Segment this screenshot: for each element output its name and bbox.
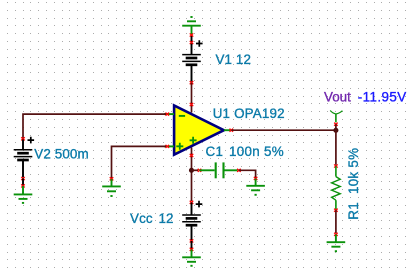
wire R1 to ground <box>335 210 337 233</box>
svg-text:U1 OPA192: U1 OPA192 <box>213 106 285 121</box>
ground GND1 (inverted, above V1) <box>182 17 201 35</box>
pin mark Vcc ground <box>190 248 194 251</box>
pin mark Vcc minus <box>190 239 194 242</box>
svg-text:C1 100n 5%: C1 100n 5% <box>206 144 285 159</box>
op-amp U1 <box>174 106 224 155</box>
pin mark in+ ground <box>110 177 114 180</box>
wire opamp out to junction <box>231 129 336 131</box>
pin mark opamp in+ <box>166 145 170 148</box>
wire opamp in+ to ground <box>112 146 167 178</box>
ground below Vcc <box>182 250 201 266</box>
capacitor C1 <box>200 162 238 178</box>
opamp input stub 2 <box>164 145 174 147</box>
plus sign V1 <box>196 40 203 47</box>
node Vout junction <box>333 128 338 133</box>
pin mark Vcc plus <box>190 201 194 204</box>
pin mark R1 ground <box>334 233 338 236</box>
battery Vcc (12V) <box>182 203 201 241</box>
plus sign in+ <box>176 143 183 150</box>
pin mark R1 bottom <box>334 209 338 212</box>
ground below V2 <box>14 186 33 203</box>
pin mark C1 left <box>198 169 202 172</box>
ground below R1 <box>327 235 346 252</box>
wire ground to V1 <box>191 35 193 44</box>
plus sign supply <box>190 137 197 144</box>
opamp output stub <box>224 129 231 131</box>
svg-text:R1 10k 5%: R1 10k 5% <box>346 148 361 220</box>
svg-text:Vcc 12: Vcc 12 <box>130 211 174 226</box>
wire C1 to ground <box>239 170 256 177</box>
svg-text:-11.95V: -11.95V <box>358 90 407 105</box>
connector Vcc to ground <box>191 241 193 249</box>
pin mark R1 top <box>334 164 338 167</box>
wire junction to C1 <box>192 169 199 171</box>
ground below in+ wire <box>102 179 121 196</box>
pin mark C1 right <box>237 169 241 172</box>
pin mark Vout <box>334 123 338 126</box>
pin mark V2 plus <box>21 137 25 140</box>
battery V1 (12V) <box>182 44 201 82</box>
pin mark opamp out <box>230 129 234 132</box>
pin mark top ground <box>190 33 194 36</box>
pin mark V1 plus pin <box>190 41 194 44</box>
wire V2 to opamp in- <box>23 114 166 138</box>
wire Vout pin to junction <box>335 124 337 130</box>
pin mark opamp in- <box>166 113 170 116</box>
opamp input stub 1 <box>164 113 174 115</box>
wire junction to R1 <box>335 130 337 165</box>
pin mark V2 ground <box>21 184 25 187</box>
pin mark opamp top <box>190 103 194 106</box>
pin mark C1 ground <box>254 177 258 180</box>
plus sign V2 <box>28 137 35 144</box>
wire V1 to opamp top <box>191 83 193 113</box>
ground right of C1 <box>246 179 265 195</box>
pin mark V2 minus <box>21 177 25 180</box>
battery V2 (500m) <box>14 140 33 178</box>
svg-text:V1 12: V1 12 <box>216 52 252 67</box>
minus sign in- <box>179 115 185 117</box>
plus sign Vcc <box>196 201 203 208</box>
wire opamp bottom pin down to junction and Vcc <box>191 148 193 202</box>
node junction (U1 V- / C1 / Vcc) <box>189 168 194 173</box>
connector V2 to ground <box>22 179 24 187</box>
pin mark V1 minus pin <box>190 81 194 84</box>
svg-text:V2 500m: V2 500m <box>34 146 88 161</box>
pin mark opamp bottom <box>190 154 194 157</box>
voltage pin Vout <box>330 111 342 123</box>
svg-text:Vout: Vout <box>324 90 351 105</box>
resistor R1 <box>332 166 341 210</box>
